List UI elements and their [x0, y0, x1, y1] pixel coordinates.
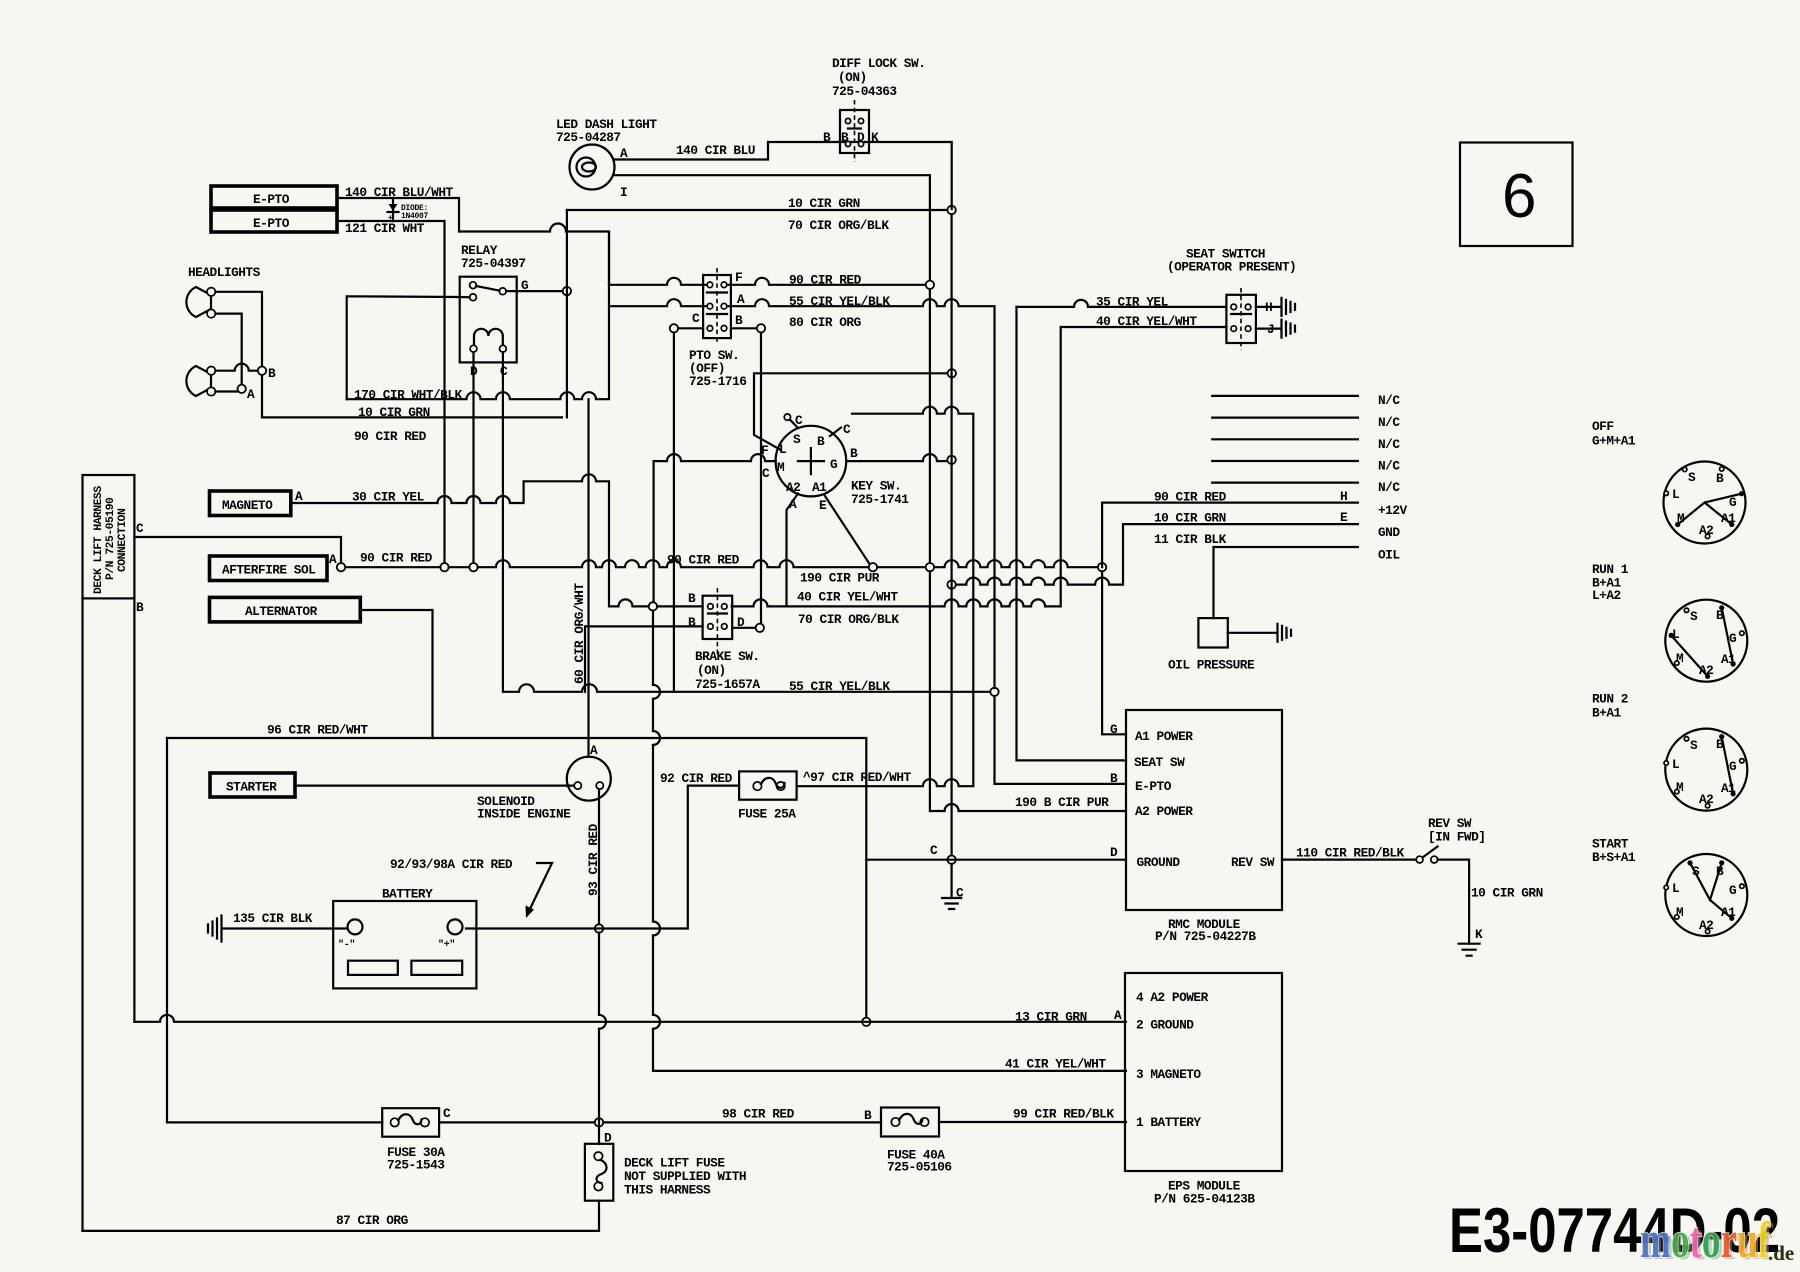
svg-text:RUN 2: RUN 2: [1592, 692, 1628, 707]
svg-text:K: K: [1475, 927, 1483, 942]
wire key E diagonal: [824, 495, 870, 565]
svg-text:AFTERFIRE SOL: AFTERFIRE SOL: [222, 563, 316, 578]
box sheet number 6: [1460, 143, 1573, 247]
svg-text:S: S: [1690, 609, 1698, 624]
wire solenoid A up: [587, 399, 589, 757]
junction circle 121 WHT at red bus: [440, 563, 448, 571]
afterfire sol box: [210, 556, 328, 581]
svg-text:"-": "-": [338, 939, 355, 951]
svg-text:HEADLIGHTS: HEADLIGHTS: [188, 265, 261, 280]
wire relay C down to 55 CIR YEL/BLK: [503, 352, 995, 692]
wire 40 CIR YEL/WHT brake top row: [732, 327, 1227, 606]
wire starter to solenoid: [295, 784, 574, 786]
wire brake lower B to 60 CIR ORG/WHT: [585, 626, 703, 691]
svg-text:90 CIR RED: 90 CIR RED: [360, 551, 433, 566]
wire alternator to 96 net: [360, 610, 432, 738]
vertical 10 CIR GRN v567: [566, 210, 568, 417]
svg-text:99 CIR RED/BLK: 99 CIR RED/BLK: [1013, 1107, 1114, 1122]
wire 10 GRN second net to fuse 25A / 97 CIR RED/WHT: [797, 407, 974, 786]
svg-text:A: A: [590, 743, 598, 758]
junction circle 96 net at bus: [862, 1018, 870, 1026]
svg-text:L: L: [1672, 487, 1680, 502]
ground symbol K: [1459, 944, 1480, 956]
svg-text:S: S: [1688, 470, 1696, 485]
rev switch: [1416, 856, 1423, 863]
junction circle red bus at v1102: [1098, 563, 1106, 571]
svg-text:10 CIR GRN: 10 CIR GRN: [358, 405, 430, 420]
svg-text:B: B: [1716, 471, 1724, 486]
svg-text:C: C: [843, 422, 851, 437]
svg-text:10 CIR GRN: 10 CIR GRN: [1154, 511, 1226, 526]
diff lock connector: [854, 100, 856, 162]
deck lift harness connector box: [83, 475, 135, 598]
svg-text:135 CIR BLK: 135 CIR BLK: [233, 911, 313, 926]
svg-text:92 CIR RED: 92 CIR RED: [660, 771, 733, 786]
solenoid: [567, 757, 611, 801]
svg-text:90 CIR RED: 90 CIR RED: [667, 553, 740, 568]
wire key A down: [787, 494, 799, 607]
svg-text:B: B: [841, 130, 849, 145]
svg-text:A: A: [329, 552, 337, 567]
svg-text:70 CIR ORG/BLK: 70 CIR ORG/BLK: [798, 612, 899, 627]
svg-text:B+A1: B+A1: [1592, 706, 1622, 721]
svg-text:A: A: [737, 292, 745, 307]
svg-text:60 CIR ORG/WHT: 60 CIR ORG/WHT: [572, 583, 587, 684]
svg-text:L+A2: L+A2: [1592, 588, 1621, 603]
svg-text:F: F: [735, 270, 742, 285]
magneto box: [210, 491, 291, 516]
seat switch connector: [1240, 288, 1242, 350]
svg-text:INSIDE ENGINE: INSIDE ENGINE: [477, 807, 571, 822]
svg-text:[IN FWD]: [IN FWD]: [1428, 830, 1485, 845]
svg-text:2 GROUND: 2 GROUND: [1136, 1018, 1194, 1033]
RMC module box: [1126, 710, 1282, 910]
svg-text:G: G: [830, 457, 838, 472]
deck lift fuse: [585, 1144, 613, 1201]
svg-text:S: S: [1690, 738, 1698, 753]
svg-text:10 CIR GRN: 10 CIR GRN: [1471, 886, 1543, 901]
key position circle RUN 1: [1665, 600, 1747, 682]
diode D1 1N4007: [392, 198, 394, 221]
svg-text:725-04363: 725-04363: [832, 84, 897, 99]
svg-text:E: E: [819, 498, 827, 513]
svg-text:(ON): (ON): [697, 663, 726, 678]
key switch 725-1741: [776, 426, 847, 497]
alternator box: [210, 597, 361, 622]
wire +12V 90 CIR RED: [1102, 503, 1358, 568]
svg-text:D: D: [1110, 845, 1118, 860]
svg-text:D: D: [857, 130, 865, 145]
wire key L to node 374: [754, 373, 949, 449]
junction circle ground node v951: [947, 856, 955, 864]
wire headlight2 A row: [215, 390, 237, 392]
svg-text:OFF: OFF: [1592, 419, 1614, 434]
wire deck C to afterfire node: [134, 537, 341, 563]
wire 41 CIR YEL/WHT key M net down v652: [653, 611, 1126, 1071]
relay pins and blade: [470, 282, 477, 289]
svg-text:B: B: [688, 591, 696, 606]
svg-text:96 CIR RED/WHT: 96 CIR RED/WHT: [267, 723, 368, 738]
junction circle G node on v567: [563, 287, 571, 295]
svg-text:BATTERY: BATTERY: [382, 887, 433, 902]
svg-text:A: A: [1114, 1008, 1122, 1023]
svg-text:L: L: [1672, 881, 1680, 896]
svg-text:(ON): (ON): [838, 70, 867, 85]
wire LED I to v930: [614, 175, 930, 563]
svg-text:110 CIR RED/BLK: 110 CIR RED/BLK: [1296, 846, 1405, 861]
svg-text:B: B: [735, 313, 743, 328]
ground symbol C below node: [950, 864, 952, 898]
svg-text:70 CIR ORG/BLK: 70 CIR ORG/BLK: [788, 218, 889, 233]
wire PTO B terminal: [731, 327, 756, 329]
svg-text:3 MAGNETO: 3 MAGNETO: [1136, 1067, 1201, 1082]
wire PTO F left: [609, 278, 706, 285]
N/C lines: [1212, 395, 1358, 397]
svg-text:REV SW: REV SW: [1231, 855, 1275, 870]
svg-text:10 CIR GRN: 10 CIR GRN: [788, 196, 860, 211]
wire LED I net down v930 to RMC A2 190 B CIR PUR: [930, 571, 1126, 811]
svg-text:H: H: [1340, 489, 1347, 504]
svg-text:ALTERNATOR: ALTERNATOR: [245, 604, 318, 619]
svg-text:GND: GND: [1378, 525, 1400, 540]
wire REV SW row: [1282, 858, 1415, 860]
junction circle battery plus node: [595, 924, 603, 932]
svg-text:L: L: [1672, 757, 1680, 772]
LED dash light lamp: [570, 145, 615, 190]
svg-text:CONNECTION: CONNECTION: [117, 508, 129, 572]
wire deck left down to 87 ORG: [81, 598, 83, 1231]
svg-text:A: A: [295, 489, 303, 504]
wire 96 CIR RED/WHT: [167, 738, 866, 1018]
svg-text:P/N 725-05190: P/N 725-05190: [105, 497, 117, 580]
svg-text:B+S+A1: B+S+A1: [1592, 850, 1636, 865]
svg-text:MAGNETO: MAGNETO: [222, 498, 273, 513]
junction circle relay D at red bus: [469, 563, 477, 571]
svg-text:+: +: [388, 214, 393, 223]
junction circle headlight A node: [238, 385, 246, 393]
svg-text:725-1741: 725-1741: [851, 492, 909, 507]
wire RMC G pin: [1102, 571, 1126, 734]
svg-text:90 CIR RED: 90 CIR RED: [1154, 490, 1227, 505]
svg-text:B: B: [136, 600, 144, 615]
svg-text:55 CIR YEL/BLK: 55 CIR YEL/BLK: [789, 679, 890, 694]
junction circle headlight B node on v262: [258, 367, 266, 375]
wire 135 CIR BLK and ground: [222, 927, 348, 929]
svg-text:121 CIR WHT: 121 CIR WHT: [345, 221, 425, 236]
wire magneto branch to brake: [291, 474, 649, 606]
wire OIL 11 CIR BLK: [1214, 546, 1358, 548]
fuse 40A: [881, 1108, 939, 1137]
svg-text:170 CIR WHT/BLK: 170 CIR WHT/BLK: [354, 388, 463, 403]
svg-text:DIFF LOCK SW.: DIFF LOCK SW.: [832, 56, 925, 71]
svg-text:N/C: N/C: [1378, 393, 1400, 408]
svg-text:725-04287: 725-04287: [556, 130, 621, 145]
wire PTO F right 90 CIR RED: [727, 278, 926, 285]
svg-text:C: C: [762, 466, 770, 481]
svg-text:92/93/98A CIR RED: 92/93/98A CIR RED: [390, 857, 513, 872]
wire 35 CIR YEL: [1017, 300, 1227, 307]
fuse 30A: [382, 1108, 439, 1137]
svg-text:41 CIR YEL/WHT: 41 CIR YEL/WHT: [1005, 1057, 1106, 1072]
svg-text:A1 POWER: A1 POWER: [1135, 729, 1193, 744]
svg-text:1 BATTERY: 1 BATTERY: [1136, 1115, 1201, 1130]
svg-text:"+": "+": [438, 939, 455, 951]
EPS module box: [1125, 973, 1282, 1171]
key position circle OFF: [1664, 462, 1746, 544]
wire deck B down to bus: [133, 598, 135, 1021]
svg-text:4 A2 POWER: 4 A2 POWER: [1136, 990, 1209, 1005]
svg-text:E-PTO: E-PTO: [1135, 779, 1172, 794]
svg-text:OIL PRESSURE: OIL PRESSURE: [1168, 658, 1255, 673]
svg-text:B: B: [850, 446, 858, 461]
svg-text:90 CIR RED: 90 CIR RED: [789, 273, 862, 288]
wire oil pressure feed: [1212, 547, 1214, 618]
svg-text:THIS HARNESS: THIS HARNESS: [624, 1183, 711, 1198]
svg-text:725-1543: 725-1543: [387, 1158, 445, 1173]
svg-text:90 CIR RED: 90 CIR RED: [354, 429, 427, 444]
svg-text:G: G: [1729, 631, 1737, 646]
seat switch H ground: [1256, 306, 1281, 308]
svg-text:55 CIR YEL/BLK: 55 CIR YEL/BLK: [789, 294, 890, 309]
svg-text:6: 6: [1502, 162, 1536, 231]
svg-text:40 CIR YEL/WHT: 40 CIR YEL/WHT: [797, 590, 898, 605]
key position circle RUN 2: [1664, 729, 1747, 811]
svg-text:+12V: +12V: [1378, 503, 1408, 518]
relay coil: [474, 329, 503, 336]
wire LED A to diff lock / 140 CIR BLU: [614, 142, 952, 209]
wire deck fuse drop 93 net: [83, 933, 600, 1231]
vertical v994 55YEL net to RMC E-PTO: [995, 696, 1127, 784]
key sw C stub upper right: [830, 428, 841, 437]
svg-text:FUSE 25A: FUSE 25A: [738, 807, 796, 822]
wire fuse40 to EPS battery: [939, 1121, 1126, 1123]
wire 170 CIR WHT/BLK: [347, 232, 609, 399]
svg-text:725-04397: 725-04397: [461, 256, 526, 271]
junction circle afterfire A: [337, 563, 345, 571]
svg-text:98 CIR RED: 98 CIR RED: [722, 1107, 795, 1122]
wire 10 CIR GRN upper run: [567, 209, 947, 211]
svg-text:C: C: [443, 1106, 451, 1121]
svg-text:B: B: [817, 434, 825, 449]
wire PTO A right 55 CIR YEL/BLK: [727, 299, 995, 688]
key sw C pin upper left: [784, 414, 790, 420]
svg-text:P/N 725-04227B: P/N 725-04227B: [1155, 929, 1256, 944]
svg-text:140 CIR BLU: 140 CIR BLU: [676, 143, 755, 158]
svg-text:^97 CIR RED/WHT: ^97 CIR RED/WHT: [803, 770, 912, 785]
svg-text:(OPERATOR PRESENT): (OPERATOR PRESENT): [1167, 260, 1296, 275]
wire brake D to node: [732, 627, 755, 629]
wire headlight2 B row: [215, 364, 257, 371]
wire RMC ground row: [866, 859, 1126, 861]
wire key G right: [846, 454, 947, 461]
svg-text:BRAKE SW.: BRAKE SW.: [695, 649, 760, 664]
svg-text:G: G: [1729, 759, 1737, 774]
svg-text:S: S: [793, 432, 801, 447]
svg-text:SEAT SW: SEAT SW: [1134, 755, 1185, 770]
wire 99 CIR RED/BLK fuse row left vertical: [167, 738, 382, 1122]
svg-text:13 CIR GRN: 13 CIR GRN: [1015, 1010, 1087, 1025]
wire PTO B down to brake D node: [760, 333, 762, 624]
wire 121 CIR WHT net: [337, 221, 445, 563]
oil pressure switch: [1198, 618, 1227, 647]
svg-text:B: B: [1110, 771, 1118, 786]
svg-text:11 CIR BLK: 11 CIR BLK: [1154, 532, 1227, 547]
svg-text:G: G: [1729, 883, 1737, 898]
svg-text:30 CIR YEL: 30 CIR YEL: [352, 490, 425, 505]
svg-text:B: B: [864, 1108, 872, 1123]
svg-text:N/C: N/C: [1378, 415, 1400, 430]
svg-text:E-PTO: E-PTO: [253, 216, 290, 231]
svg-text:190 B CIR PUR: 190 B CIR PUR: [1015, 795, 1109, 810]
svg-text:.de: .de: [1768, 1241, 1794, 1265]
svg-text:B: B: [688, 615, 696, 630]
wire 90 CIR RED main bus: [345, 560, 1098, 567]
svg-text:S: S: [1692, 864, 1700, 879]
junction circle PTO F at v930: [926, 281, 934, 289]
fuse 25A: [739, 771, 797, 799]
junction circle red bus at v930: [926, 563, 934, 571]
brake switch connector: [716, 588, 718, 655]
PTO switch connector: [716, 268, 718, 345]
svg-text:N/C: N/C: [1378, 437, 1400, 452]
wire PTO C terminal: [670, 324, 678, 332]
svg-text:GROUND: GROUND: [1137, 855, 1181, 870]
svg-text:C: C: [930, 843, 938, 858]
svg-text:I: I: [620, 185, 627, 200]
wire solenoid bottom 93 CIR RED: [598, 789, 600, 924]
junction circle 190 PUR at v951: [947, 580, 955, 588]
junction circle 10 GRN at v951: [947, 206, 955, 214]
svg-text:N/C: N/C: [1378, 480, 1400, 495]
svg-text:OIL: OIL: [1378, 548, 1400, 563]
svg-text:725-1716: 725-1716: [689, 374, 746, 389]
svg-text:725-05106: 725-05106: [887, 1160, 952, 1175]
svg-text:80 CIR ORG: 80 CIR ORG: [789, 315, 862, 330]
wire relay G to node: [506, 290, 562, 292]
wire relay pin to v347 (headlight feed): [347, 296, 470, 399]
svg-text:A2 POWER: A2 POWER: [1135, 804, 1193, 819]
svg-text:K: K: [871, 130, 879, 145]
svg-text:190 CIR PUR: 190 CIR PUR: [800, 571, 880, 586]
svg-text:35 CIR YEL: 35 CIR YEL: [1096, 295, 1169, 310]
wire headlight1 top pin to v262: [215, 292, 562, 418]
wire key M left: [654, 454, 776, 601]
svg-text:P/N 625-04123B: P/N 625-04123B: [1154, 1192, 1255, 1207]
svg-text:motoruf: motoruf: [1640, 1212, 1770, 1269]
svg-text:E-PTO: E-PTO: [253, 192, 290, 207]
junction circle key E at red bus: [869, 563, 877, 571]
svg-text:C: C: [956, 886, 964, 901]
connector E-PTO box 1: [211, 186, 337, 208]
svg-text:87 CIR ORG: 87 CIR ORG: [336, 1213, 409, 1228]
junction circle brake top node: [649, 602, 657, 610]
svg-text:725-1657A: 725-1657A: [695, 677, 760, 692]
svg-text:40 CIR YEL/WHT: 40 CIR YEL/WHT: [1096, 314, 1197, 329]
wire main bus 13 CIR GRN: [134, 1015, 1126, 1022]
svg-text:C: C: [692, 311, 700, 326]
starter box: [210, 773, 295, 797]
wire 140 CIR BLU/WHT / 70 CIR ORG/BLK net: [337, 198, 609, 285]
svg-text:C: C: [136, 521, 144, 536]
connector E-PTO box 2: [211, 210, 337, 232]
wire headlight1 lower pin to v241: [215, 314, 241, 384]
headlight lamp 2: [186, 366, 211, 396]
svg-text:DECK LIFT HARNESS: DECK LIFT HARNESS: [93, 486, 105, 594]
svg-text:A1: A1: [812, 480, 827, 495]
watermark logo motoruf.de: [1640, 1212, 1794, 1271]
svg-text:STARTER: STARTER: [226, 780, 277, 795]
svg-text:1N4007: 1N4007: [401, 212, 429, 221]
svg-text:G+M+A1: G+M+A1: [1592, 434, 1636, 449]
wire relay D down to red bus: [472, 352, 474, 562]
svg-text:M: M: [777, 460, 785, 475]
headlight lamp 1: [186, 287, 211, 317]
junction circle 55 YEL/BLK end: [990, 688, 998, 696]
svg-text:C: C: [795, 413, 803, 428]
svg-text:A: A: [247, 387, 255, 402]
svg-text:93 CIR RED: 93 CIR RED: [586, 823, 601, 896]
vertical v951 140 BLU net to ground node: [950, 214, 952, 855]
key position circle START: [1664, 854, 1747, 936]
svg-text:B: B: [823, 130, 831, 145]
wire 35 YEL down v1016 to RMC seat sw: [1017, 307, 1127, 761]
svg-text:N/C: N/C: [1378, 459, 1400, 474]
wire PTO A left: [609, 299, 706, 306]
seat switch J ground: [1256, 328, 1281, 330]
wire 92 CIR RED battery to fuse 25: [466, 786, 739, 929]
wire 190 CIR PUR: [952, 524, 1358, 585]
svg-text:E: E: [1340, 510, 1348, 525]
wire fuse30 to fuse40 98 CIR RED: [439, 1121, 881, 1123]
svg-text:B: B: [268, 366, 276, 381]
wire rev sw to K ground: [1438, 860, 1470, 944]
